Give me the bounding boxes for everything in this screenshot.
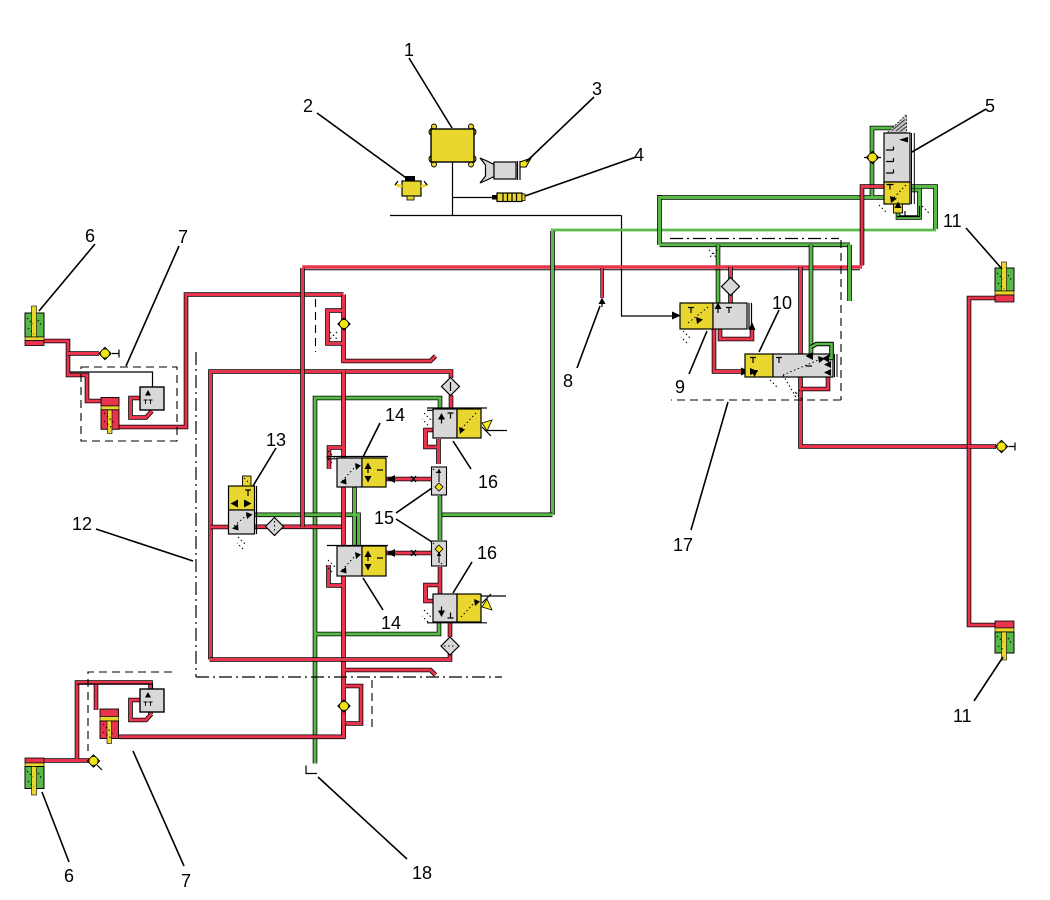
reservoir 6 bottom <box>25 758 44 763</box>
coupling: test point near 6 bottom <box>88 755 103 770</box>
wire: green riser x=552.5 from shuttle valves to main green <box>550 231 555 515</box>
svg-text:15: 15 <box>374 508 394 528</box>
wire: red circuit of unit 7 bottom <box>44 683 152 761</box>
svg-text:6: 6 <box>85 226 95 246</box>
wire: red bottom long run from cylinder 7 bottom to check valve <box>119 723 344 737</box>
wire: green loop circuit of parking unit (valve16 top/bottom) <box>315 398 440 764</box>
wire: red U at relay box 7 top <box>131 398 153 418</box>
svg-text:13: 13 <box>266 430 286 450</box>
ECU box 1 <box>429 129 436 136</box>
sensor 8 symbol <box>599 298 606 305</box>
wire: green outlined branch y=197.5 to valve 5 left <box>660 195 885 245</box>
wire: red pilot L at valve 16 bottom and link to valve 15 bottom <box>426 567 441 601</box>
wire: red drop from main supply x=304 <box>300 268 305 527</box>
open port 18 under green line <box>306 766 317 774</box>
svg-text:5: 5 <box>985 96 995 116</box>
svg-text:2: 2 <box>303 96 313 116</box>
svg-text:12: 12 <box>72 514 92 534</box>
wire: red stub to coupling near 6 top <box>68 351 99 356</box>
valve 16 top <box>427 408 487 410</box>
valve 14 top <box>327 457 388 459</box>
svg-text:4: 4 <box>634 145 644 165</box>
svg-text:14: 14 <box>381 613 401 633</box>
valve 9 <box>680 303 713 329</box>
coupling: test point right side y=446.5 <box>996 441 1016 453</box>
coupling: test point near 6 top <box>99 348 119 360</box>
wire: red U at valve 9 bottom and feed to valve 10 <box>714 329 752 372</box>
svg-text:18: 18 <box>412 863 432 883</box>
sensor 2 <box>402 181 421 196</box>
valve 13 <box>229 486 255 510</box>
valve 10 <box>745 354 773 377</box>
wire: black signal line from ECU (1) down and to valve 9 <box>390 162 673 316</box>
coupling: yellow check valve top (on x=343.5) <box>338 318 350 330</box>
wire: red from diamond into valve 16 top <box>449 395 454 410</box>
reservoir 11 top <box>995 268 1014 291</box>
svg-text:16: 16 <box>477 543 497 563</box>
svg-text:17: 17 <box>673 535 693 555</box>
wire: green between valves 15 <box>438 496 443 540</box>
wire: red feed to valve 5 left <box>862 187 884 266</box>
wire: red riser to reservoir 11 top <box>969 298 995 447</box>
svg-text:7: 7 <box>178 227 188 247</box>
connector 3 <box>480 158 494 183</box>
wire: red check valve assembly top (bypass loop) <box>328 295 436 362</box>
wire: main green supply horizontal y=230 <box>551 229 936 232</box>
relay valve box 7 bottom <box>140 689 164 712</box>
dashed box: unit 17 <box>670 238 839 240</box>
shuttle valve 15 top <box>432 467 447 495</box>
valve 5 body <box>884 133 910 182</box>
svg-text:11: 11 <box>943 211 962 231</box>
wire: green pilot hook into valve 10 right ports <box>811 344 832 358</box>
wire: green horizontal y=514.8 from valve 15 to riser <box>439 512 553 517</box>
wire: green drop to valve 9 top <box>716 245 721 303</box>
wire: red drop to reservoir 11 bottom <box>969 447 995 626</box>
filter diamond above valve 9 <box>722 278 740 296</box>
wire: black pilot line into relay box 7 top <box>70 372 153 387</box>
wire: main red supply horizontal y=267 <box>303 269 860 271</box>
reservoir 11 bottom <box>995 621 1014 628</box>
svg-text:16: 16 <box>478 472 498 492</box>
svg-text:10: 10 <box>772 293 792 313</box>
brake cylinder 7 bottom <box>100 709 119 717</box>
wire: red from main down behind valve 10 to right run y=446.5 <box>801 267 970 447</box>
wire: green loops at valve 5 <box>872 128 936 229</box>
wire: red main service run y=371.5 with riser x=210.5 <box>211 372 452 660</box>
svg-text:8: 8 <box>563 371 573 391</box>
reservoir 6 top <box>25 313 44 337</box>
relay valve box 7 top <box>140 387 164 410</box>
dashed box: check valve top <box>315 299 317 352</box>
spring/pilot under valve 5 <box>894 204 903 213</box>
svg-text:7: 7 <box>181 871 191 891</box>
node: arrow into valve 9 left port <box>672 312 681 320</box>
wire: red sensor drop 8 <box>601 268 604 298</box>
wire: green drop to valve 10 top right <box>809 245 814 355</box>
svg-text:11: 11 <box>953 706 972 726</box>
dashed box: check valve bottom <box>371 680 373 731</box>
wire: red stub to test coupling right <box>969 444 996 449</box>
dashed box: unit 7 top <box>81 367 177 441</box>
wire: red from cylinder 7 top to supply riser and check valve 12 <box>118 295 344 428</box>
dashed box: unit 7 bottom <box>88 672 172 751</box>
brake cylinder 7 top <box>101 398 119 407</box>
svg-text:9: 9 <box>675 377 685 397</box>
wire: red center riser x=343.5 behind valves 14 <box>329 372 436 738</box>
wire: black pilot line into relay box 7 bottom <box>77 684 153 689</box>
valve 16 bottom <box>427 622 487 624</box>
wire: red bottom run y=659.5 to diamond under valve 16 bottom <box>210 622 451 660</box>
svg-text:3: 3 <box>592 79 602 99</box>
valve 14 bottom <box>327 545 388 547</box>
svg-text:14: 14 <box>385 405 405 425</box>
wire: red branch to valve 13 left <box>211 525 230 530</box>
pilot mark near check valve top <box>330 332 337 339</box>
wire: red drop to diamond and valve 9 <box>728 267 733 303</box>
filter diamond above valve 16 top <box>442 378 460 396</box>
wire: red link valve 14 top to valve 15 top <box>386 477 431 482</box>
silencer above valve 5 <box>888 115 907 133</box>
coupling: yellow valve on green line at valve 5 <box>864 152 881 164</box>
wire: red pilot L at valve 16 top and link to valve 15 top <box>426 430 441 464</box>
wire: red hook at valve 10 right port <box>801 377 828 389</box>
filter diamond right of valve 13 <box>266 518 284 536</box>
wire: green from valve 13 to valves 14 <box>254 487 359 546</box>
shuttle valve 15 bottom <box>432 541 447 566</box>
wire: red from valve 13 right through filter to center riser <box>254 524 346 529</box>
dashed box: circuit protection 12 <box>196 352 502 677</box>
wire: red from reservoir 6 top through unit 7 top <box>44 341 102 401</box>
wire: black line from ECU stem to connector 4 <box>453 197 493 199</box>
filter diamond below valve 16 bottom <box>441 637 459 655</box>
svg-text:1: 1 <box>404 40 414 60</box>
pilot mark near valve 9 green feed <box>709 250 717 258</box>
connector 4 <box>492 195 497 200</box>
wire: red link valve 14 bottom to valve 15 bottom <box>386 551 431 556</box>
wire: green stub x=849.5 <box>847 245 852 301</box>
svg-text:6: 6 <box>64 866 74 886</box>
coupling: yellow check valve bottom <box>338 700 350 712</box>
